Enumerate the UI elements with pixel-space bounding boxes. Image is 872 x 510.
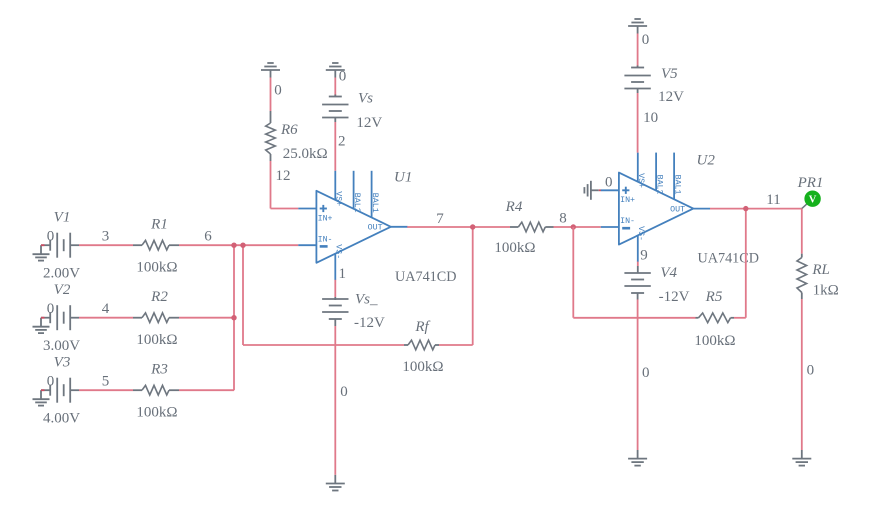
svg-text:0: 0 xyxy=(47,229,55,245)
wire U1 OUT to R4 (node 7) xyxy=(407,226,510,228)
ground of V1 xyxy=(41,244,50,246)
svg-text:IN+: IN+ xyxy=(620,196,635,205)
svg-text:VS+: VS+ xyxy=(636,173,645,188)
svg-text:1: 1 xyxy=(339,266,347,282)
svg-text:V4: V4 xyxy=(660,265,677,281)
svg-text:VS-: VS- xyxy=(334,244,343,259)
probe PR1 stub xyxy=(802,204,807,209)
svg-text:UA741CD: UA741CD xyxy=(698,251,759,267)
svg-text:100kΩ: 100kΩ xyxy=(694,333,735,349)
svg-text:R5: R5 xyxy=(705,289,723,305)
wire V2 to R xyxy=(70,317,79,319)
wire ground to Vs xyxy=(334,78,336,97)
svg-text:BAL2: BAL2 xyxy=(352,193,361,213)
red terminal tick at U2 IN+ xyxy=(599,189,601,191)
svg-text:0: 0 xyxy=(47,301,55,317)
resistor R1 xyxy=(133,244,142,246)
svg-text:RL: RL xyxy=(811,262,830,278)
svg-text:R4: R4 xyxy=(505,199,523,215)
wire R1 to node 6 / U1 IN- xyxy=(179,244,298,246)
probe PR1 xyxy=(804,191,820,207)
wire U2 VS- to V4 (node 9) xyxy=(637,262,639,266)
ground of V2 xyxy=(41,317,50,319)
svg-text:BAL1: BAL1 xyxy=(370,193,379,213)
svg-text:0: 0 xyxy=(274,83,282,99)
resistor R5 xyxy=(696,317,699,319)
ground below V4 xyxy=(637,450,639,459)
svg-text:100kΩ: 100kΩ xyxy=(494,240,535,256)
svg-text:0: 0 xyxy=(339,69,347,85)
svg-text:V: V xyxy=(809,195,817,206)
svg-text:100kΩ: 100kΩ xyxy=(136,332,177,348)
svg-text:0: 0 xyxy=(807,363,815,379)
svg-text:U1: U1 xyxy=(394,170,412,186)
svg-text:0: 0 xyxy=(340,384,348,400)
voltage source V1 (battery) xyxy=(49,240,51,251)
svg-text:Vs: Vs xyxy=(358,91,373,107)
svg-text:9: 9 xyxy=(640,248,648,264)
svg-text:V1: V1 xyxy=(54,210,71,226)
svg-text:4: 4 xyxy=(102,301,110,317)
svg-text:IN+: IN+ xyxy=(318,214,333,223)
svg-text:3: 3 xyxy=(102,229,110,245)
svg-text:100kΩ: 100kΩ xyxy=(136,404,177,420)
wire node 11 down to RL xyxy=(801,209,803,254)
svg-text:PR1: PR1 xyxy=(797,175,824,191)
svg-text:12V: 12V xyxy=(658,89,684,105)
op-amp U1 UA741CD xyxy=(316,191,390,263)
wire ground to R6 xyxy=(270,78,272,112)
wire Rf to node 7 xyxy=(439,344,473,346)
svg-text:-12V: -12V xyxy=(659,289,690,305)
svg-text:1kΩ: 1kΩ xyxy=(813,283,839,299)
svg-text:V3: V3 xyxy=(54,355,71,371)
ground at U2 IN+ xyxy=(583,187,585,193)
svg-text:2: 2 xyxy=(338,133,346,149)
wire R6 to U1 IN+ (node 12) xyxy=(270,161,272,209)
junction node 6 left xyxy=(231,243,236,248)
svg-text:0: 0 xyxy=(642,365,650,381)
svg-text:-12V: -12V xyxy=(354,315,385,331)
op-amp U2 UA741CD xyxy=(619,173,693,245)
wire V1 to R xyxy=(70,244,79,246)
junction node 8 xyxy=(571,224,576,229)
wire R3 to vertical bus xyxy=(179,389,234,391)
svg-text:8: 8 xyxy=(559,211,567,227)
svg-text:OUT: OUT xyxy=(368,224,383,233)
svg-text:Vs_: Vs_ xyxy=(355,292,378,308)
voltage source Vs (battery) xyxy=(334,95,336,97)
svg-text:0: 0 xyxy=(605,175,613,191)
svg-text:VS-: VS- xyxy=(636,226,645,241)
wire V4 to ground (node 0) xyxy=(637,295,639,300)
svg-text:VS+: VS+ xyxy=(334,191,343,206)
svg-text:3.00V: 3.00V xyxy=(43,338,80,354)
resistor R2 xyxy=(133,317,142,319)
svg-text:V2: V2 xyxy=(54,282,71,298)
svg-text:100kΩ: 100kΩ xyxy=(402,359,443,375)
svg-text:7: 7 xyxy=(436,211,444,227)
junction node 11 xyxy=(743,206,748,211)
wire ground to V5 xyxy=(637,34,639,68)
wire RL to ground (node 0) xyxy=(801,299,803,450)
red terminal tick at V1 ground corner xyxy=(41,244,45,246)
svg-text:BAL2: BAL2 xyxy=(654,175,663,195)
wire Vs_ to ground (node 0) xyxy=(334,321,336,326)
red terminal tick at V3 ground corner xyxy=(41,389,45,391)
svg-text:R3: R3 xyxy=(150,362,168,378)
wire R2 to vertical bus xyxy=(179,317,234,319)
voltage source V5 (battery) xyxy=(637,66,639,68)
ground below Vs_ xyxy=(334,475,336,484)
ground of V3 xyxy=(41,389,50,391)
voltage source V4 (battery) xyxy=(624,272,650,274)
red terminal tick at V2 ground corner xyxy=(41,317,45,319)
resistor R4 xyxy=(510,226,518,228)
junction node 7 xyxy=(470,224,475,229)
ground above V5 xyxy=(634,18,640,20)
svg-text:100kΩ: 100kΩ xyxy=(136,259,177,275)
svg-text:0: 0 xyxy=(47,374,55,390)
svg-text:4.00V: 4.00V xyxy=(43,411,80,427)
resistor Rf xyxy=(404,344,408,346)
wire V5 to U2 VS+ (node 10) xyxy=(637,89,639,94)
svg-text:OUT: OUT xyxy=(670,205,685,214)
junction node 6 right xyxy=(240,243,245,248)
wire U2 OUT to node 11 xyxy=(710,208,802,210)
resistor R3 xyxy=(133,389,142,391)
voltage source Vs_ (battery) xyxy=(322,298,348,300)
svg-text:12V: 12V xyxy=(356,115,382,131)
svg-text:U2: U2 xyxy=(697,153,716,169)
svg-text:5: 5 xyxy=(102,374,110,390)
svg-text:IN-: IN- xyxy=(318,235,333,244)
svg-text:Rf: Rf xyxy=(414,319,430,335)
voltage source V3 (battery) xyxy=(49,385,51,396)
svg-text:2.00V: 2.00V xyxy=(43,266,80,282)
resistor R6 xyxy=(270,111,272,123)
wire U1 VS- pin to Vs_ (node 1) xyxy=(334,280,336,297)
svg-text:R2: R2 xyxy=(150,289,168,305)
ground below RL xyxy=(801,450,803,459)
svg-text:IN-: IN- xyxy=(620,217,635,226)
resistor RL xyxy=(801,254,803,258)
wire R4 to U2 IN- (node 8) xyxy=(554,226,601,228)
svg-text:25.0kΩ: 25.0kΩ xyxy=(283,146,328,162)
wire vertical bus joining R2,R3 to node 6 xyxy=(233,245,235,390)
svg-text:11: 11 xyxy=(766,192,780,208)
svg-text:UA741CD: UA741CD xyxy=(395,269,456,285)
wire R5 to node 11 xyxy=(734,317,746,319)
svg-text:R1: R1 xyxy=(150,217,168,233)
svg-text:R6: R6 xyxy=(280,122,298,138)
wire V3 to R xyxy=(70,389,79,391)
svg-text:0: 0 xyxy=(642,32,650,48)
svg-text:V5: V5 xyxy=(661,66,678,82)
svg-text:6: 6 xyxy=(204,228,212,244)
svg-text:BAL1: BAL1 xyxy=(672,175,681,195)
junction R2 join xyxy=(231,315,236,320)
svg-text:12: 12 xyxy=(276,168,291,184)
wire node 6 down to Rf feedback xyxy=(242,245,244,345)
ground above R6 xyxy=(267,62,273,64)
svg-text:10: 10 xyxy=(643,110,658,126)
wire node 8 down to R5 xyxy=(572,227,574,318)
voltage source V2 (battery) xyxy=(49,312,51,323)
wire Vs to U1 VS+ pin (node 2) xyxy=(334,118,336,123)
ground above Vs xyxy=(332,62,338,64)
